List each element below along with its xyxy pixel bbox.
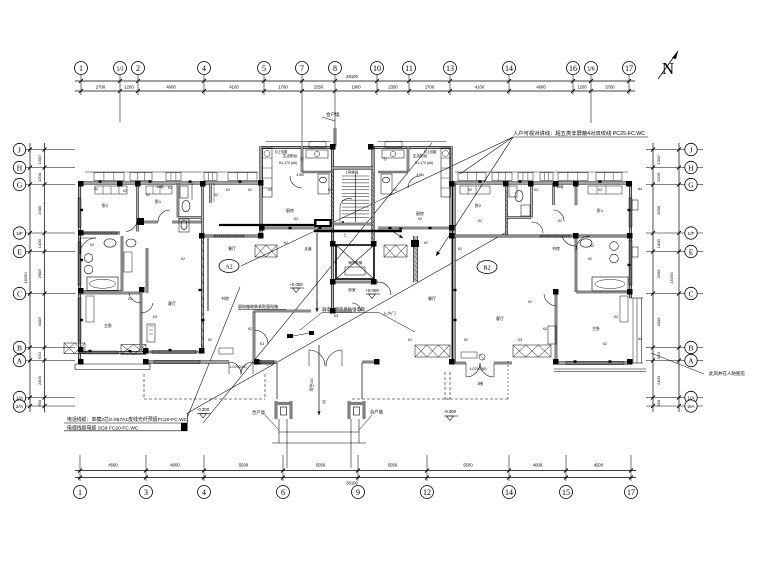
svg-text:K2: K2: [393, 188, 397, 192]
svg-text:3300: 3300: [656, 205, 661, 215]
svg-text:17: 17: [627, 488, 635, 497]
svg-text:H-L170 (A6): H-L170 (A6): [279, 161, 297, 165]
svg-text:4000: 4000: [656, 317, 661, 327]
svg-text:1: 1: [79, 64, 83, 73]
svg-text:-0.300: -0.300: [197, 407, 210, 412]
svg-text:1200: 1200: [37, 172, 42, 182]
svg-text:4000: 4000: [37, 317, 42, 327]
svg-text:K3: K3: [153, 315, 157, 319]
svg-text:4.5M: 4.5M: [296, 173, 304, 177]
svg-text:K2: K2: [598, 188, 602, 192]
svg-text:K2: K2: [294, 217, 298, 221]
svg-text:K2: K2: [226, 188, 230, 192]
svg-text:12: 12: [423, 488, 431, 497]
svg-text:-0.300: -0.300: [444, 409, 457, 414]
svg-text:卧1: 卧1: [597, 207, 604, 213]
svg-text:书房: 书房: [552, 245, 560, 251]
svg-text:餐厅: 餐厅: [428, 295, 436, 301]
svg-text:E: E: [17, 247, 22, 256]
svg-text:K2: K2: [590, 244, 594, 248]
svg-text:1400: 1400: [37, 239, 42, 249]
svg-text:J: J: [18, 145, 21, 154]
svg-text:16: 16: [569, 64, 577, 73]
svg-text:1200: 1200: [124, 85, 134, 90]
svg-text:5050: 5050: [388, 463, 398, 468]
svg-text:K2: K2: [464, 338, 468, 342]
svg-text:2/A: 2/A: [16, 404, 24, 410]
svg-text:K3: K3: [334, 314, 338, 318]
svg-text:C: C: [688, 289, 693, 298]
svg-text:4: 4: [202, 64, 206, 73]
svg-text:K2: K2: [268, 188, 272, 192]
svg-text:K2: K2: [408, 338, 412, 342]
svg-text:9: 9: [356, 488, 360, 497]
svg-text:N: N: [662, 59, 674, 78]
svg-text:1/6: 1/6: [587, 66, 594, 72]
svg-text:45晾: 45晾: [556, 184, 564, 189]
svg-text:+0.000: +0.000: [289, 282, 303, 287]
svg-text:1400: 1400: [656, 239, 661, 249]
svg-text:K2: K2: [123, 189, 127, 193]
svg-text:入户可视对讲线：超五类非屏蔽4对双绞线 PC25-FC.WC: 入户可视对讲线：超五类非屏蔽4对双绞线 PC25-FC.WC: [513, 129, 645, 137]
svg-text:K3: K3: [518, 338, 522, 342]
svg-text:16250: 16250: [23, 272, 28, 284]
svg-text:引: 引: [300, 156, 303, 161]
svg-text:2350: 2350: [314, 85, 324, 90]
svg-text:合户墙: 合户墙: [370, 409, 384, 416]
svg-text:1/J: 1/J: [117, 66, 124, 72]
svg-text:入户门: 入户门: [383, 310, 396, 317]
svg-text:2350: 2350: [388, 85, 398, 90]
svg-text:K2: K2: [468, 188, 472, 192]
svg-text:2700: 2700: [605, 85, 615, 90]
svg-text:K3: K3: [90, 243, 94, 247]
svg-text:950: 950: [656, 399, 661, 406]
svg-text:客厅: 客厅: [168, 300, 176, 306]
svg-text:弱电箱暗装紧贴强电箱: 弱电箱暗装紧贴强电箱: [238, 303, 278, 309]
svg-text:H-L170 (A6): H-L170 (A6): [415, 161, 433, 165]
svg-text:引: 引: [383, 156, 386, 161]
svg-text:K2: K2: [214, 193, 218, 197]
svg-text:2900: 2900: [37, 269, 42, 279]
svg-text:15: 15: [562, 488, 570, 497]
svg-text:厨房: 厨房: [416, 210, 424, 216]
svg-text:10: 10: [373, 64, 381, 73]
svg-text:电话线缆：单模2芯G.657A1皮线光纤预留FC20-FC.: 电话线缆：单模2芯G.657A1皮线光纤预留FC20-FC.WC: [67, 416, 188, 423]
svg-text:5: 5: [262, 64, 266, 73]
svg-text:空: 空: [322, 399, 326, 404]
svg-text:K2: K2: [94, 187, 98, 191]
svg-text:1/F: 1/F: [688, 231, 695, 237]
svg-text:G: G: [17, 180, 23, 189]
svg-text:主卧: 主卧: [592, 325, 600, 331]
svg-text:5050: 5050: [316, 463, 326, 468]
svg-text:K2: K2: [534, 188, 538, 192]
svg-text:H: H: [688, 163, 694, 172]
svg-text:1-G200(A6): 1-G200(A6): [469, 367, 486, 371]
svg-text:A4: A4: [638, 187, 642, 191]
svg-text:1: 1: [78, 488, 82, 497]
svg-text:A4: A4: [638, 337, 642, 341]
svg-text:1200: 1200: [656, 172, 661, 182]
svg-text:合户墙: 合户墙: [252, 409, 266, 416]
svg-text:前室: 前室: [348, 287, 356, 292]
svg-text:K2: K2: [614, 315, 618, 319]
svg-text:38100: 38100: [346, 481, 358, 486]
svg-text:1/F: 1/F: [16, 231, 23, 237]
svg-text:引上信箱: 引上信箱: [275, 149, 289, 154]
svg-text:2400: 2400: [37, 375, 42, 385]
svg-text:书房: 书房: [221, 295, 229, 301]
svg-text:2/A: 2/A: [687, 404, 695, 410]
svg-text:K2: K2: [284, 241, 288, 245]
svg-text:45晾: 45晾: [156, 184, 164, 189]
svg-text:8: 8: [333, 64, 337, 73]
svg-text:A2: A2: [225, 265, 232, 271]
svg-text:K2: K2: [128, 297, 132, 301]
svg-text:K2: K2: [558, 219, 562, 223]
svg-text:1700: 1700: [278, 85, 288, 90]
svg-text:K2: K2: [588, 257, 592, 261]
svg-text:1700: 1700: [425, 85, 435, 90]
svg-text:4000: 4000: [533, 463, 543, 468]
svg-text:厨房: 厨房: [286, 207, 294, 213]
svg-text:K2: K2: [478, 219, 482, 223]
svg-text:卧1: 卧1: [155, 198, 162, 204]
svg-text:K2: K2: [168, 186, 172, 190]
svg-text:4100: 4100: [475, 85, 485, 90]
svg-text:7: 7: [300, 64, 304, 73]
svg-text:1200: 1200: [577, 85, 587, 90]
svg-text:餐厅: 餐厅: [228, 245, 236, 251]
svg-text:H: H: [17, 163, 23, 172]
svg-text:主卧: 主卧: [104, 322, 112, 328]
svg-text:4100: 4100: [229, 85, 239, 90]
svg-text:13: 13: [446, 64, 454, 73]
svg-text:客厅: 客厅: [496, 315, 504, 321]
svg-text:950: 950: [37, 399, 42, 406]
svg-text:A: A: [17, 356, 23, 365]
svg-text:5500: 5500: [239, 463, 249, 468]
svg-text:J梯: J梯: [477, 380, 483, 386]
svg-text:4600: 4600: [536, 85, 546, 90]
svg-text:28100: 28100: [346, 74, 358, 79]
svg-text:2700: 2700: [96, 85, 106, 90]
svg-text:1900: 1900: [351, 85, 361, 90]
svg-text:B: B: [688, 343, 693, 352]
svg-text:1300: 1300: [656, 155, 661, 165]
svg-text:910: 910: [37, 351, 42, 358]
svg-text:1300: 1300: [37, 155, 42, 165]
svg-text:走道: 走道: [304, 246, 312, 251]
svg-text:B: B: [17, 343, 22, 352]
svg-text:1号梯间: 1号梯间: [346, 170, 359, 175]
svg-text:K2: K2: [248, 327, 252, 331]
svg-text:合户墙: 合户墙: [326, 111, 340, 118]
svg-text:A: A: [688, 356, 694, 365]
svg-text:K2: K2: [146, 193, 150, 197]
svg-text:电视线缆电缆 SG8 FC20-FC.WC: 电视线缆电缆 SG8 FC20-FC.WC: [67, 425, 139, 432]
svg-text:3300: 3300: [37, 205, 42, 215]
svg-text:K3: K3: [260, 342, 264, 346]
svg-text:3: 3: [144, 488, 148, 497]
svg-text:G: G: [688, 180, 694, 189]
svg-text:4.5M: 4.5M: [416, 173, 424, 177]
svg-text:4500: 4500: [594, 463, 604, 468]
svg-text:B2: B2: [483, 266, 490, 272]
svg-text:4600: 4600: [166, 85, 176, 90]
svg-text:K2: K2: [424, 241, 428, 245]
svg-text:消防电梯: 消防电梯: [348, 260, 363, 265]
svg-text:2900: 2900: [656, 269, 661, 279]
svg-text:K2: K2: [208, 338, 212, 342]
svg-text:K2: K2: [603, 342, 607, 346]
svg-text:4500: 4500: [108, 463, 118, 468]
svg-text:4: 4: [202, 488, 206, 497]
svg-text:+0.000: +0.000: [365, 288, 379, 293]
svg-text:引上信箱: 引上信箱: [424, 149, 438, 154]
svg-text:11: 11: [405, 64, 413, 73]
svg-text:16250: 16250: [669, 272, 674, 284]
svg-text:14: 14: [505, 64, 513, 73]
svg-text:K2: K2: [458, 247, 462, 251]
svg-text:K2: K2: [328, 188, 332, 192]
svg-text:雨空/20: 雨空/20: [309, 379, 314, 392]
svg-text:6: 6: [281, 488, 285, 497]
svg-text:14: 14: [505, 488, 513, 497]
svg-text:5500: 5500: [463, 463, 473, 468]
svg-text:1-G200(A6): 1-G200(A6): [229, 365, 246, 369]
svg-text:K2: K2: [418, 217, 422, 221]
svg-text:4000: 4000: [170, 463, 180, 468]
svg-text:K2: K2: [248, 188, 252, 192]
svg-text:卧2: 卧2: [102, 202, 109, 208]
svg-text:K2: K2: [181, 257, 185, 261]
svg-text:K2: K2: [543, 327, 547, 331]
svg-text:C: C: [17, 289, 22, 298]
svg-text:2400: 2400: [656, 375, 661, 385]
svg-text:J: J: [690, 145, 693, 154]
svg-text:K2: K2: [528, 300, 532, 304]
svg-text:卧2: 卧2: [475, 202, 482, 208]
svg-text:此风井在人防图见: 此风井在人防图见: [709, 370, 745, 377]
svg-text:17: 17: [625, 64, 633, 73]
svg-text:E: E: [689, 247, 694, 256]
svg-text:2: 2: [136, 64, 140, 73]
